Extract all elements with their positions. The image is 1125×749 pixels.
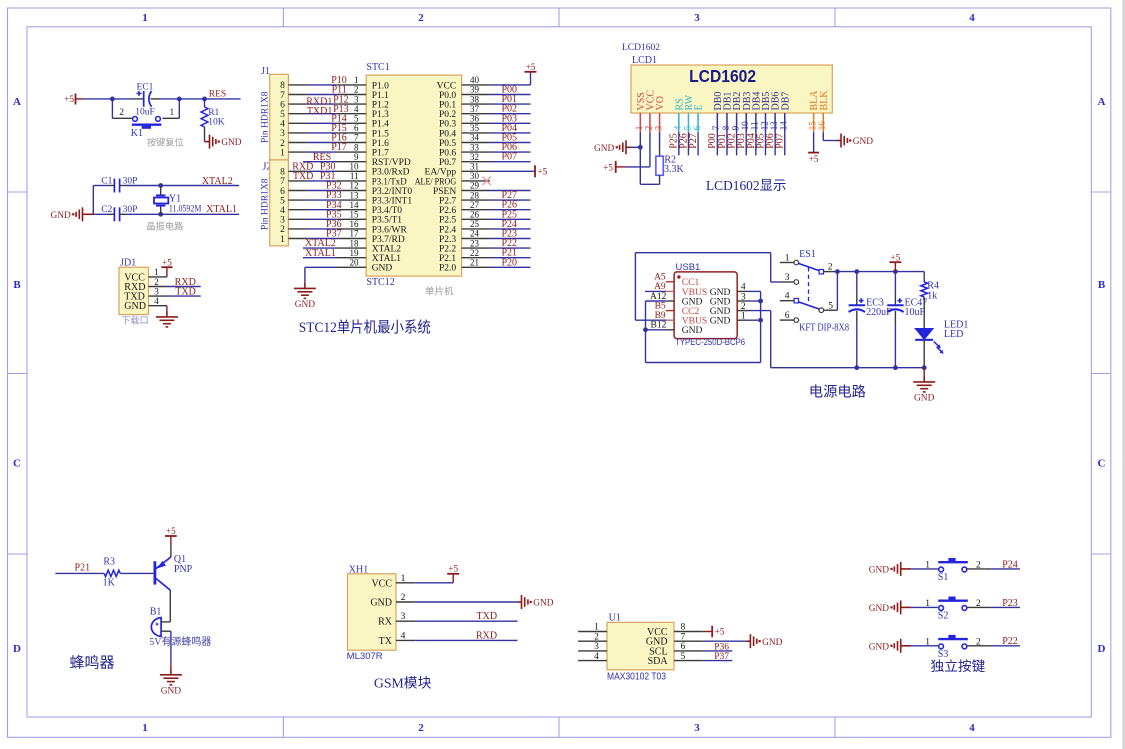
svg-text:2: 2 [119,108,124,118]
wire + net label P21 [490,257,531,259]
pin stub (right) [674,660,704,662]
svg-text:1: 1 [785,253,790,263]
pin stub [462,257,490,259]
svg-text:11: 11 [350,171,359,181]
svg-text:DB7: DB7 [780,92,791,111]
wire (bottom rail) [771,367,925,369]
svg-text:P0.6: P0.6 [439,149,456,159]
svg-text:C: C [1098,458,1106,470]
wire [308,94,338,96]
svg-text:B: B [1098,279,1106,291]
ground (power circuit) [923,368,925,377]
svg-text:独立按键: 独立按键 [931,659,986,674]
svg-text:TXD1: TXD1 [307,106,333,117]
wire [308,180,338,182]
wire [308,209,338,211]
wire [923,297,925,329]
svg-text:3: 3 [354,94,359,104]
svg-text:P2.4: P2.4 [439,225,456,235]
svg-text:D: D [13,643,21,655]
svg-text:4: 4 [280,120,285,130]
svg-text:4: 4 [354,104,359,114]
svg-text:VCC: VCC [371,578,392,589]
svg-text:10K: 10K [208,117,225,127]
pin stub [462,247,490,249]
power flag +5 (Q1 emitter) [165,535,177,537]
svg-text:GND: GND [533,599,554,609]
svg-text:3: 3 [694,722,700,734]
svg-text:1: 1 [925,637,930,647]
svg-text:1: 1 [401,574,406,584]
pin B9 (VBUS) + wire [635,319,666,321]
crystal Y1 [160,186,162,196]
node junction [854,365,859,370]
svg-text:2: 2 [644,126,654,131]
pin stub [462,238,490,240]
svg-text:1: 1 [634,126,644,131]
wire + net label P02 [490,113,531,115]
svg-text:3: 3 [741,292,746,302]
wire [308,199,338,201]
wire + net label P06 [490,151,531,153]
wire (to key K1) [111,99,113,118]
transistor Q1 (PNP) [155,557,171,590]
wire [204,127,206,142]
node junction [638,145,643,150]
svg-text:P2.6: P2.6 [439,206,456,216]
svg-text:LCD1602: LCD1602 [689,66,756,86]
svg-text:P3.2/INT0: P3.2/INT0 [372,187,413,197]
svg-text:11: 11 [750,122,760,131]
svg-text:P2.0: P2.0 [439,264,456,274]
svg-text:34: 34 [470,133,480,143]
svg-text:B: B [13,279,21,291]
svg-text:3: 3 [154,286,159,296]
pin stub [337,228,366,230]
wire (VO pin3 to R2) [659,132,661,146]
svg-text:1: 1 [142,722,148,734]
power flag +5 (JD1 pin1) [166,267,168,277]
svg-text:下载口: 下载口 [121,314,149,325]
pin stub [337,180,366,182]
wire [308,218,338,220]
capacitor EC1 [137,91,152,107]
svg-text:30: 30 [470,171,480,181]
wire + net label P36 [704,650,733,652]
svg-text:GND: GND [710,297,731,307]
svg-text:RXD: RXD [476,630,497,641]
svg-text:SDA: SDA [648,656,669,667]
svg-text:7: 7 [280,91,285,101]
pin stub [337,238,366,240]
svg-text:TXD: TXD [175,286,196,297]
pin stub (J2) [288,180,307,182]
pin stub [337,209,366,211]
power flag +5 (rail) [889,261,901,263]
svg-text:1: 1 [741,312,746,322]
svg-text:6: 6 [692,125,702,130]
pin stub [337,142,366,144]
svg-text:VBUS: VBUS [682,288,707,298]
pin 5 wire (up to node 2) [824,309,838,311]
svg-text:B9: B9 [655,311,666,321]
wire [923,340,925,368]
svg-text:P20: P20 [501,257,517,268]
power flag +5 (reset circuit) [75,94,77,105]
svg-text:2: 2 [401,593,406,603]
svg-text:5: 5 [280,196,285,206]
svg-text:BLK: BLK [819,90,830,111]
buzzer pins [161,621,170,623]
no-connect X (pin30) [483,177,491,185]
svg-text:24: 24 [470,229,480,239]
capacitor EC47 [894,272,896,294]
svg-text:4: 4 [673,125,683,130]
wire + net label P25 [678,132,680,155]
svg-text:TXD: TXD [293,171,314,182]
pin stub [737,290,747,292]
wire [308,151,338,153]
ground (key S3) [894,639,911,653]
svg-text:CC1: CC1 [682,278,700,288]
svg-text:GND: GND [710,317,731,327]
power flag +5 (LCD VCC) [615,161,617,173]
wire + net label TXD [167,295,201,297]
wire [911,568,938,570]
svg-text:P1.7: P1.7 [372,149,389,159]
svg-text:1: 1 [280,148,285,158]
pin stub [462,180,490,182]
svg-text:LCD1602: LCD1602 [622,43,660,53]
wire + net label P02 [736,132,738,155]
node junction [893,269,898,274]
wire [308,170,338,172]
capacitor C1 [114,179,119,193]
ground (U1) [746,634,756,648]
wire [179,98,204,100]
svg-text:P0.1: P0.1 [439,101,456,111]
wire + net label P01 [490,103,531,105]
svg-text:R1: R1 [208,108,219,118]
svg-text:GND: GND [161,687,182,697]
svg-text:ES1: ES1 [799,249,816,260]
svg-text:5: 5 [280,110,285,120]
svg-text:GND: GND [869,604,890,614]
pin A5 (CC1) [666,281,674,283]
resistor R2 [656,156,663,175]
svg-text:1: 1 [154,267,159,277]
wire + net label P27 [490,199,531,201]
svg-text:GND: GND [710,288,731,298]
pin stub [462,122,490,124]
svg-text:B1: B1 [150,607,162,618]
wire [205,98,241,100]
svg-text:VO: VO [655,96,666,110]
svg-text:EA/Vpp: EA/Vpp [425,168,457,178]
svg-text:PNP: PNP [174,564,193,575]
pin stub [737,310,747,312]
svg-text:晶振电路: 晶振电路 [146,221,183,232]
svg-text:2: 2 [418,722,424,734]
svg-text:STC12: STC12 [366,277,394,288]
svg-text:P3.5/T1: P3.5/T1 [372,216,403,226]
resistor R1 [204,99,206,107]
svg-text:3: 3 [785,273,790,283]
svg-text:单片机: 单片机 [425,286,454,298]
svg-text:P1.3: P1.3 [372,110,389,120]
svg-text:33: 33 [470,142,480,152]
svg-text:3: 3 [401,612,406,622]
svg-text:7: 7 [280,177,285,187]
svg-text:1: 1 [925,599,930,609]
wire [856,311,858,323]
pin A12 (GND) + wire [646,300,667,302]
svg-text:GND: GND [682,297,703,307]
svg-text:12: 12 [759,121,769,130]
svg-text:P24: P24 [1002,559,1018,570]
svg-text:Pin HDR1X8: Pin HDR1X8 [261,178,271,230]
capacitor EC3 [856,272,858,294]
svg-text:P17: P17 [331,142,347,153]
svg-text:15: 15 [807,121,817,131]
pin stub [462,151,490,153]
pin stub [149,305,167,307]
pin stub [337,113,366,115]
svg-text:6: 6 [280,100,285,110]
pin stub (J1) [288,132,307,134]
pin stub [337,161,366,163]
wire + net label RXD [415,639,517,641]
wire [76,98,84,100]
svg-text:GND: GND [853,137,874,147]
wire + net label RXD [167,286,201,288]
svg-text:14: 14 [779,121,789,131]
wire + power flag +5 (VCC pin40) [490,84,531,86]
svg-text:1K: 1K [103,577,116,588]
pin stub (J1) [288,151,307,153]
svg-text:3: 3 [594,642,599,652]
switch arm 4-5 [799,302,820,309]
pin A9 (VBUS) + wire [645,290,666,292]
wire (GND pin20) [305,266,338,268]
wire (R2 bottom) [659,175,661,184]
svg-text:P1.0: P1.0 [372,81,389,91]
pin stub [337,199,366,201]
svg-text:R3: R3 [103,556,115,567]
svg-text:1k: 1k [927,290,937,301]
pin stub [337,132,366,134]
wire [308,228,338,230]
svg-text:2: 2 [594,632,599,642]
pin 3 + wire [770,253,772,282]
pin stub [737,319,747,321]
wire + net label P27 [697,132,699,155]
svg-text:VCC: VCC [437,81,457,91]
ground (JD1 pin4) [166,306,168,312]
wire (PSEN pin29) [490,190,531,192]
svg-text:20: 20 [350,258,360,268]
svg-text:1: 1 [594,623,599,633]
svg-text:7: 7 [354,133,359,143]
svg-text:P0.4: P0.4 [439,129,456,139]
pin stub [396,639,415,641]
svg-text:3: 3 [694,12,700,24]
wire pin4 [747,290,761,292]
svg-text:GND: GND [762,638,783,648]
node junction [835,269,840,274]
svg-text:XTAL1: XTAL1 [206,204,237,215]
pin stub [462,170,490,172]
resistor R3 [104,570,120,576]
wire [93,213,108,215]
wire (top rail from B9 corner) [634,253,636,321]
svg-text:XTAL1: XTAL1 [305,248,336,259]
wire [308,142,338,144]
svg-text:13: 13 [350,190,360,200]
node junction [922,365,927,370]
svg-text:5V有源蜂鸣器: 5V有源蜂鸣器 [149,635,211,648]
wire (U1 pin7 to GND) [704,640,747,642]
svg-text:XTAL2: XTAL2 [202,176,233,187]
svg-text:1: 1 [170,108,175,118]
pin stub [337,151,366,153]
IC LCD1 (LCD1602 display) [631,65,832,113]
svg-text:TX: TX [379,636,393,647]
wire [308,84,338,86]
svg-text:P3.4/T0: P3.4/T0 [372,206,403,216]
svg-text:P07: P07 [501,152,517,163]
wire + net label P07 [784,132,786,155]
svg-text:B5: B5 [655,301,666,311]
svg-text:GND: GND [221,138,242,148]
pin stub [337,94,366,96]
wire + power flag +5 (EA/Vpp pin31) [490,170,535,172]
svg-text:2: 2 [418,12,424,24]
svg-text:8: 8 [354,142,359,152]
svg-text:4: 4 [401,631,406,641]
wire + net label P26 [490,209,531,211]
wire [120,572,153,574]
svg-text:XTAL2: XTAL2 [372,245,402,255]
svg-text:21: 21 [470,258,479,268]
pin stub [337,218,366,220]
svg-text:J1: J1 [261,66,270,77]
node junction [758,318,763,323]
wire (VSS pin1 to GND) [639,132,641,184]
svg-text:P2.7: P2.7 [439,197,456,207]
svg-text:13: 13 [769,121,779,131]
wire (collector down) [169,590,171,622]
svg-text:P2.3: P2.3 [439,235,456,245]
svg-text:A9: A9 [654,282,666,292]
wire + power flag +5 (XH1 pin1) [415,582,453,584]
svg-text:TXD: TXD [477,611,498,622]
svg-text:7: 7 [711,125,721,130]
svg-text:9: 9 [730,125,740,130]
dashed link [808,267,810,301]
svg-text:9: 9 [354,152,359,162]
pin stub [337,247,366,249]
wire + net label P26 [687,132,689,155]
svg-text:6: 6 [785,311,790,321]
svg-text:P27: P27 [688,133,699,149]
svg-text:37: 37 [470,104,480,114]
pin stub [337,122,366,124]
wire [120,213,126,215]
svg-text:2: 2 [154,277,159,287]
svg-text:27: 27 [470,200,480,210]
svg-text:A: A [13,96,21,108]
svg-text:2: 2 [280,225,285,235]
ground (LCD VSS) [631,146,640,148]
svg-text:4: 4 [785,292,790,302]
pin B5 (CC2) [666,310,674,312]
node junction [758,299,763,304]
svg-text:1: 1 [280,235,285,245]
svg-text:GND: GND [594,144,615,154]
pin stub (J1) [288,103,307,105]
svg-text:4: 4 [154,296,159,306]
svg-text:P2.1: P2.1 [439,254,456,264]
ground (XH1) [518,595,528,609]
svg-text:P1.5: P1.5 [372,129,389,139]
svg-text:4: 4 [280,206,285,216]
svg-text:ALE/ PROG: ALE/ PROG [415,177,457,187]
wire [308,132,338,134]
svg-text:按键复位: 按键复位 [147,137,184,148]
svg-text:D: D [1098,643,1106,655]
svg-text:LCD1602显示: LCD1602显示 [706,178,786,193]
wire [967,568,991,570]
pin stub [462,94,490,96]
svg-text:P07: P07 [775,133,786,149]
svg-text:P3.0/RxD: P3.0/RxD [372,168,410,178]
resistor R4 [923,272,925,282]
svg-text:29: 29 [470,181,480,191]
svg-text:P22: P22 [1002,636,1018,647]
ground (key S2) [894,600,911,614]
svg-text:P23: P23 [1002,598,1018,609]
svg-text:GND: GND [372,264,393,274]
ground GND (crystal) [76,207,93,221]
node junction [893,365,898,370]
pin (left, unconnected) [578,660,607,662]
svg-text:11.0592M: 11.0592M [169,204,202,214]
svg-text:GND: GND [710,307,731,317]
svg-text:+5: +5 [603,162,613,172]
wire [92,186,94,215]
svg-text:P37: P37 [714,652,729,662]
node junction [158,212,163,217]
svg-text:S2: S2 [938,610,949,621]
pin stub (J1) [288,122,307,124]
svg-text:6: 6 [280,187,285,197]
pin stub [149,286,167,288]
wire + net label P00 [490,94,531,96]
svg-text:GND: GND [50,211,71,221]
pin stub [396,601,415,603]
svg-text:A: A [1098,96,1106,108]
key S3 [938,635,968,649]
wire [911,606,938,608]
svg-text:A12: A12 [650,292,667,302]
svg-text:ML307R: ML307R [347,651,383,662]
key S1 [938,558,968,572]
svg-text:XTAL1: XTAL1 [372,254,402,264]
svg-text:C: C [13,458,21,470]
svg-text:GND: GND [869,566,890,576]
svg-text:15: 15 [350,210,360,220]
